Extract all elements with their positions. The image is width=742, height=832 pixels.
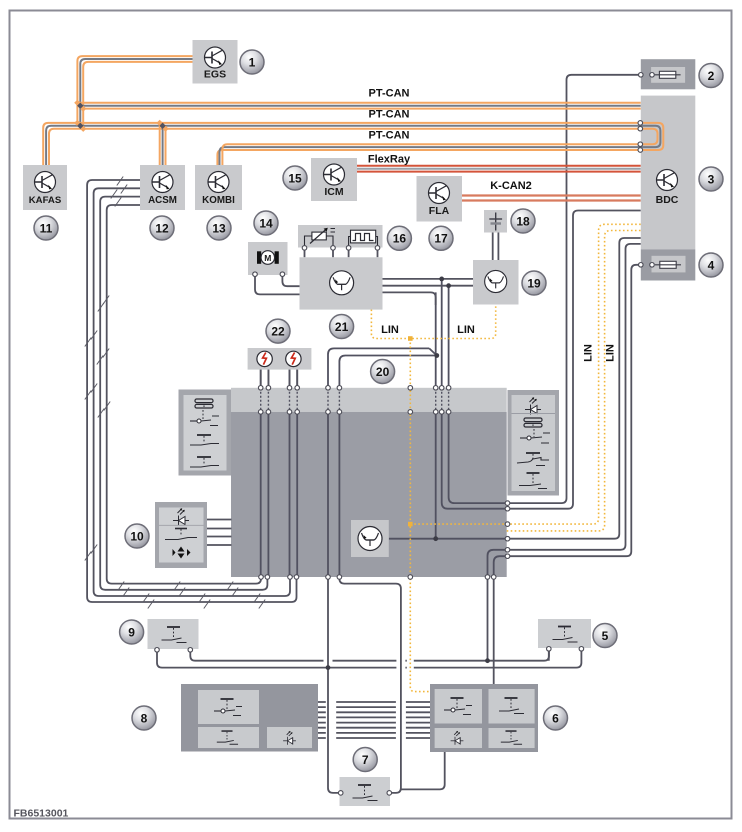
wire duct bottom x328 down to switch7 left [328, 577, 338, 793]
ACSM riser orange left [159, 123, 161, 165]
svg-text:PT-CAN: PT-CAN [369, 130, 410, 142]
label 11 [34, 216, 58, 240]
box16 pins [302, 246, 307, 251]
bus junction diamonds at EGS/bus1 [74, 100, 86, 112]
label 8 [132, 706, 156, 730]
EGS stub orange bottom [83, 62, 192, 129]
motor actuator box 14 [248, 242, 288, 275]
potentiometer symbol [305, 228, 336, 247]
loop connector pins [638, 121, 643, 126]
label 14 [254, 211, 278, 235]
svg-text:FB6513001: FB6513001 [14, 808, 69, 820]
left panel switch 2 [190, 435, 219, 445]
interior module flap symbol [358, 527, 382, 551]
svg-text:19: 19 [527, 276, 541, 290]
label 16 [387, 226, 411, 250]
svg-text:20: 20 [376, 365, 390, 379]
wire ACSM pin1 to duct bottom x296.5 [87, 180, 296, 602]
PT-CAN terminating loop inside BDC orange outer [640, 123, 663, 150]
wire heater2 circle a [289, 367, 291, 388]
K-CAN2 line top [462, 194, 641, 196]
junction dot module wire [433, 536, 438, 541]
svg-text:13: 13 [212, 221, 226, 235]
fuse2 connector pins [639, 73, 644, 78]
control unit KAFAS [23, 165, 67, 210]
svg-text:ICM: ICM [324, 186, 344, 198]
LIN from relay21 bottom to relay19 bottom [371, 305, 495, 339]
svg-text:15: 15 [288, 171, 302, 185]
svg-text:21: 21 [335, 320, 349, 334]
right panel switch bottom [519, 473, 547, 489]
bus junction diamonds at EGS/bus2 [74, 120, 86, 132]
label 17 [429, 226, 453, 250]
svg-text:12: 12 [155, 221, 169, 235]
svg-text:22: 22 [271, 324, 285, 338]
junction dot relay wire2 [446, 283, 451, 288]
LIN junction square at 410.3,338.5 [408, 336, 413, 341]
pot16 pin wires down [305, 250, 378, 257]
PT-CAN bus2 gray [46, 126, 660, 165]
wire ACSM pin4 to duct bottom x261 [107, 205, 261, 584]
right panel double switch [517, 453, 549, 466]
wire ACSM pin2 to duct bottom x290 [94, 188, 290, 596]
svg-text:LIN: LIN [605, 344, 617, 362]
svg-text:6: 6 [552, 711, 559, 725]
hook wire to switch 7 right branch [339, 356, 436, 578]
right panel switch with circle [520, 429, 550, 443]
svg-text:FlexRay: FlexRay [368, 154, 411, 166]
long wire roof switch row lower [157, 650, 581, 667]
footwell bundle switch8 to driver block [318, 701, 430, 703]
svg-text:M: M [264, 253, 271, 263]
svg-text:KOMBI: KOMBI [202, 195, 235, 206]
roof switch box 9 [148, 619, 199, 649]
wire heater1 circle a [260, 367, 262, 388]
cable duct 20: light band [231, 388, 507, 412]
svg-text:5: 5 [602, 629, 609, 643]
junction dot relay wire1 [439, 277, 444, 282]
control unit EGS [193, 40, 238, 84]
control unit ICM [311, 158, 357, 201]
wire fuse2 down via x566.5 to duct edge [509, 75, 641, 503]
left switch panel in duct [179, 390, 232, 476]
svg-text:KAFAS: KAFAS [29, 195, 62, 206]
LIN duct pins [408, 386, 413, 391]
PT-CAN bus2 orange top with KAFAS drop and BDC loop [43, 123, 663, 165]
antenna18 wires down to relay19 [493, 233, 499, 261]
label 21 [330, 315, 354, 339]
EGS stub gray [80, 59, 192, 126]
cable duct 20: dark block [231, 412, 507, 577]
label 13 [207, 216, 231, 240]
wire heater2 circle b [296, 367, 298, 388]
wire fuse4 via x631.3 to duct edge [509, 265, 641, 556]
svg-text:14: 14 [259, 216, 273, 230]
left panel switch 3 [190, 457, 219, 467]
motor14 wires to relay21 [255, 274, 300, 294]
in-duct wire to footwell line 2 [494, 556, 507, 577]
FlexRay red bottom [357, 171, 641, 173]
LIN wire 2 horizontal to BDC [507, 231, 641, 531]
PT-CAN terminating loop orange inner [640, 129, 657, 145]
passenger switch block 8 [181, 684, 318, 752]
left panel clamp symbol [195, 399, 213, 408]
driver door switch block 6 [430, 684, 538, 752]
cable break marks bottom run [118, 582, 265, 609]
wire ACSM pin3 to duct bottom x267.4 [100, 197, 267, 590]
wire driver block bottom to switch7 [401, 752, 445, 789]
seat heater box 22 [248, 348, 312, 370]
label 18 [511, 209, 535, 233]
hook wire to switch 7 left: from junction on BDC line down through duct [328, 348, 429, 577]
label 1 [240, 50, 264, 74]
relay module box 19 [473, 260, 519, 305]
svg-text:10: 10 [130, 529, 144, 543]
label 22 [266, 319, 290, 343]
FlexRay red top [357, 165, 641, 167]
relay21 to relay19 wire2 [383, 285, 474, 287]
cable break marks left bundle lower [85, 384, 110, 561]
cable break marks on ACSM stub [111, 177, 127, 207]
LIN junction square [408, 522, 413, 527]
interior light module box in duct [351, 520, 389, 557]
wire duct bottom x493.7 through rows into driver switch block [493, 577, 495, 684]
PT-CAN bus1 orange bottom [83, 108, 641, 110]
roof switch box 5 [538, 619, 591, 648]
relay21 to relay19 wire1 [383, 278, 474, 280]
long wire roof switch row upper [190, 650, 549, 660]
label 6 [544, 706, 568, 730]
duct dashed segments in light band [261, 388, 449, 412]
junction dot switch7 line on lower row [326, 665, 331, 670]
wires through duct: seat heater right pair [290, 367, 298, 578]
duct right edge pins [505, 501, 510, 559]
label 20 [371, 360, 395, 384]
label 4 [699, 253, 723, 277]
ACSM riser gray [162, 126, 164, 165]
wire duct bottom to switch7 area: x339.4 elbow to x400.9 [339, 577, 401, 793]
svg-text:2: 2 [708, 69, 715, 83]
svg-text:K-CAN2: K-CAN2 [490, 180, 532, 192]
svg-text:PT-CAN: PT-CAN [369, 88, 410, 100]
motor14 pins [253, 272, 258, 277]
wire BDC pin2 via x619.3 to duct edge [509, 238, 641, 539]
control unit KOMBI [195, 165, 242, 210]
bus junction diamonds at ACSM/bus2 [157, 120, 169, 132]
label 2 [699, 64, 723, 88]
fuse box 4 [641, 249, 696, 280]
LIN wire horizontal to BDC [410, 224, 641, 524]
mirror10 wires to duct [207, 520, 232, 546]
fuse4 connector pins [639, 263, 644, 268]
relay21 wire3 elbow down [383, 292, 436, 305]
K-CAN2 line bottom [462, 199, 641, 201]
wire heater1 circle b [267, 367, 269, 388]
svg-text:16: 16 [393, 232, 407, 246]
svg-text:LIN: LIN [583, 344, 595, 362]
label 19 [522, 271, 546, 295]
PT-CAN bus1 orange top [77, 102, 640, 104]
label 9 [120, 620, 144, 644]
svg-text:LIN: LIN [457, 324, 475, 336]
ACSM riser orange right [165, 129, 167, 165]
junction dot x487.5 on upper row [485, 658, 490, 663]
wire BDC pin to duct edge via x573 [509, 211, 641, 509]
right switch panel in duct [508, 390, 560, 496]
svg-text:7: 7 [362, 753, 369, 767]
control unit ACSM [140, 165, 185, 210]
svg-text:4: 4 [708, 258, 715, 272]
svg-text:8: 8 [141, 711, 148, 725]
label 15 [283, 166, 307, 190]
mirror switch box 10 [155, 502, 207, 568]
antenna box 18 [484, 210, 507, 233]
svg-text:BDC: BDC [656, 194, 679, 206]
svg-text:3: 3 [708, 172, 715, 186]
svg-text:FLA: FLA [429, 205, 450, 217]
right panel LED [525, 398, 541, 415]
PWM signal symbol [349, 230, 378, 247]
PT-CAN bus1 gray [80, 105, 641, 107]
FlexRay gray [357, 168, 641, 170]
switch5 wires down to rows [549, 648, 582, 661]
label 3 [699, 167, 723, 191]
relay module box 21 [300, 257, 383, 309]
EGS stub orange top [77, 56, 192, 123]
svg-text:18: 18 [516, 214, 530, 228]
junction dot hooks meet BDC line [434, 353, 439, 358]
svg-text:PT-CAN: PT-CAN [369, 109, 410, 121]
label 7 [353, 748, 377, 772]
label 12 [150, 216, 174, 240]
control unit FLA [417, 176, 463, 222]
wire roof module to console switch5 left [548, 648, 550, 650]
sensor strip box 16 [298, 225, 383, 248]
svg-text:EGS: EGS [204, 69, 226, 81]
svg-text:17: 17 [434, 232, 448, 246]
label 10 [125, 524, 149, 548]
label 5 [593, 624, 617, 648]
vertical from relay wires T-dots down into duct [435, 292, 437, 538]
PT-CAN bus2 orange bottom [49, 129, 658, 165]
wire from duct module circle to BDC edge [389, 538, 507, 540]
right panel clamp [524, 418, 542, 427]
PT-CAN terminating loop gray [640, 126, 660, 147]
wire duct bottom x487.5 to upper row [487, 577, 489, 661]
left panel switch with circle [190, 410, 219, 426]
svg-text:ACSM: ACSM [148, 195, 177, 206]
wires through duct: seat heater left pair [261, 367, 269, 578]
duct top boundary pins row2 [258, 410, 451, 415]
svg-text:1: 1 [249, 55, 256, 69]
switch box 7 [340, 777, 391, 806]
svg-text:9: 9 [128, 625, 135, 639]
fuse box 2 [641, 59, 696, 89]
cable break marks left bundle upper [85, 296, 109, 365]
control unit BDC [641, 96, 696, 250]
svg-text:11: 11 [40, 221, 53, 235]
in-duct wire to footwell line 1 [488, 550, 507, 577]
LIN wire vertical through duct [410, 339, 430, 692]
duct top boundary pins row1 [258, 386, 451, 391]
duct bottom boundary pins [259, 575, 496, 580]
switch9 wires down to rows [157, 649, 190, 651]
wire BDC pin3 via x625.5 to duct edge [509, 244, 641, 550]
svg-text:LIN: LIN [381, 324, 399, 336]
